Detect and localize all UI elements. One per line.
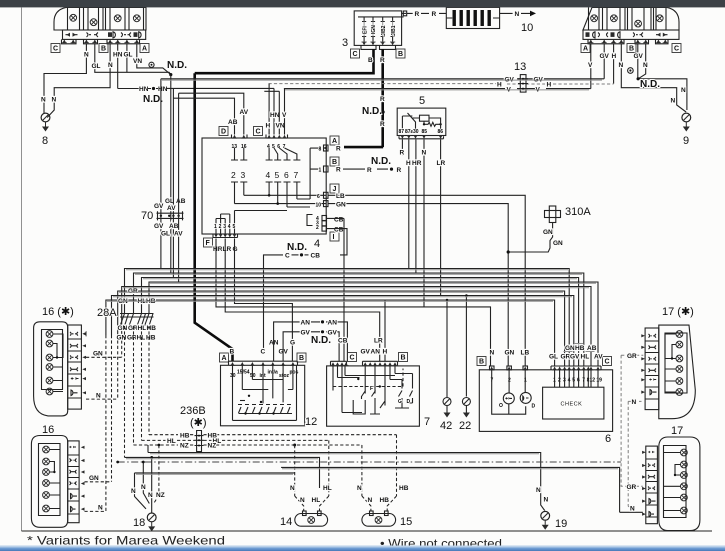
17 connector strip [646,446,658,524]
wire N2 right headlamp to ND dot [638,44,687,110]
svg-text:AB: AB [228,119,238,126]
AN junction N.D. [274,320,348,362]
fusebox output pin right [402,11,407,16]
svg-text:B: B [368,57,373,64]
connector label B (comp 7) [399,353,408,362]
wire HB to 15 [387,435,396,511]
svg-text:C: C [285,253,290,260]
svg-text:HL: HL [167,438,176,445]
svg-text:G: G [398,399,402,405]
svg-text:B: B [629,46,634,53]
svg-text:CB: CB [311,253,321,260]
comp6 internals: gauge 1 [499,393,514,409]
wire H long run (dashed) [269,83,614,85]
svg-text:8: 8 [319,147,322,153]
svg-text:N: N [632,399,637,406]
svg-text:N: N [300,497,305,504]
wire GL2 from left headlamp [126,44,128,73]
svg-text:6: 6 [284,170,289,180]
not-connected symbol [149,62,154,67]
svg-text:GV: GV [361,349,371,356]
wire G riser from F to comp12 [235,239,293,362]
control unit 4 (box) [202,138,326,234]
svg-text:HN: HN [158,86,168,93]
wire AB riser through 70 [172,89,174,278]
wire LR riser from F [225,239,380,362]
svg-text:LR: LR [437,160,446,167]
comp6 internals wiring [492,370,526,414]
svg-text:3: 3 [241,170,246,180]
headlamp right icon strip [583,30,679,39]
svg-text:H: H [383,349,388,356]
svg-text:19: 19 [596,378,602,384]
wire V long run [284,88,591,90]
17 lamps [664,449,688,514]
svg-text:J/B1: J/B1 [391,25,397,36]
wire R thick from fusebox down [381,49,384,147]
N dashed riser right [628,401,633,512]
connector label A (comp 12) [220,353,229,362]
svg-text:C: C [53,46,58,53]
headlamp left lamp 1 [70,14,77,21]
connector label C (right headlamp) [672,44,681,53]
unit4 contact 3 [240,148,247,190]
svg-text:2: 2 [231,170,236,180]
wire C-CB N.D. junction below comp4 [264,242,321,351]
comp7 internals [333,366,413,415]
svg-text:NZ: NZ [208,443,217,450]
ground 42 riser [446,300,448,397]
svg-text:15/54: 15/54 [237,370,250,376]
wire R-R fusebox to link 10 [407,12,447,14]
connector label B (fusebox 3) [396,49,405,58]
svg-text:CB: CB [334,217,344,224]
svg-text:AV: AV [167,205,176,212]
relay 5 [397,108,446,139]
svg-text:6: 6 [605,433,611,445]
svg-text:N: N [148,492,153,499]
comp7 top pins left group [330,361,348,365]
svg-text:GN: GN [336,202,346,209]
svg-text:1: 1 [214,224,217,230]
svg-text:H: H [497,82,502,89]
connector label A (left headlamp) [140,44,149,53]
svg-text:N.D.: N.D. [167,60,187,71]
unit4 pin A8 R [319,145,342,153]
connector label A (unit 4) [330,136,339,145]
svg-text:C: C [261,349,266,356]
svg-text:GN: GN [553,240,563,247]
svg-text:NZ: NZ [156,492,165,499]
svg-text:10: 10 [316,203,322,209]
wire AV branch to comp4 pin 16 [179,93,244,134]
comp6 internals: gauge 2 [520,392,535,409]
wire AV riser through 70 [178,93,180,282]
connector 70 [157,211,184,220]
svg-text:N: N [52,97,57,104]
svg-text:CHECK: CHECK [561,402,583,408]
svg-text:N: N [84,52,89,59]
unit4 pin J10 GN wire [316,201,509,366]
svg-text:16: 16 [42,424,54,436]
svg-text:18: 18 [133,517,145,529]
comp12 internals [233,365,297,420]
wire N to 15 [362,445,371,511]
svg-text:J/B2: J/B2 [381,25,387,36]
connector label C (fusebox 3) [351,49,360,58]
svg-text:N.D.: N.D. [362,106,382,117]
long run solid y452 to ground 19 [148,445,545,511]
wire H from right headlamp [613,44,615,84]
svg-text:GV: GV [600,53,610,60]
ground 8 [41,113,50,131]
svg-text:HL: HL [312,497,321,504]
comp6 pin N [489,350,494,384]
ground 19 [541,511,550,529]
wire GV from right headlamp [603,44,605,79]
16 pins right [81,446,85,511]
comp7 top pins right group [363,361,398,365]
node N junction right [637,77,640,80]
long run solid y457 [125,457,320,488]
svg-text:12: 12 [305,416,317,428]
ground 22 [462,398,470,418]
comp6 pin labels row1 [549,354,603,361]
node bundle taps [446,294,468,301]
svg-text:GL: GL [161,231,170,238]
wire HN continuation to AB riser [166,88,274,134]
svg-text:HB: HB [180,432,190,439]
svg-text:N: N [536,487,541,494]
relay wire H riser [408,140,410,269]
not-connected symbol right [628,68,634,74]
svg-text:N: N [108,62,113,69]
svg-text:6: 6 [317,194,320,200]
svg-text:4: 4 [266,170,271,180]
headlamp right lamp 2 [611,15,618,22]
svg-text:LB: LB [336,193,345,200]
svg-text:VN: VN [276,123,285,130]
wire labels below 28A row1 [118,325,157,332]
svg-text:236B: 236B [180,405,206,417]
svg-text:AN: AN [371,349,381,356]
headlamp left connector pins [62,39,140,43]
wire bundle line 7 [112,296,574,367]
svg-text:GR: GR [128,288,138,295]
svg-text:AN: AN [301,320,311,327]
svg-text:N: N [96,392,101,399]
ignition switch 12 (box) [221,365,305,426]
connector label C (comp 7) [348,353,357,362]
connector label A (right headlamp) [581,44,590,53]
svg-text:GV: GV [154,203,164,210]
svg-text:IGN: IGN [371,25,377,34]
bottom blue bar [0,546,725,551]
svg-text:N: N [544,497,549,504]
comp6 CHECK box [543,387,604,419]
svg-text:2: 2 [219,224,222,230]
svg-text:N: N [368,497,373,504]
svg-text:310A: 310A [565,206,591,218]
headlamp right lamp 1 [591,15,598,22]
wire VN from left headlamp to N.D. dot [137,44,171,75]
svg-text:C: C [674,46,679,53]
svg-text:HL: HL [137,335,146,342]
svg-text:N.D.: N.D. [311,335,331,346]
node GN join [507,250,510,253]
connector 28A [120,314,154,327]
connector label C (left headlamp) [51,44,60,53]
svg-text:GV: GV [154,223,164,230]
svg-text:VN: VN [133,58,142,65]
svg-text:87: 87 [399,129,405,135]
wire N dashed to 16* [86,398,118,400]
svg-text:CB: CB [338,338,348,345]
switch unit 7 (box) [327,366,420,426]
svg-text:GN: GN [565,345,575,352]
svg-text:HB: HB [399,485,409,492]
connector label C (unit 4) [254,127,263,136]
wire V into comp4 [284,89,286,135]
svg-text:B: B [479,359,484,366]
unit4 pin J6 LB wire [317,192,525,366]
svg-text:N: N [290,485,295,492]
16* pins right [82,332,86,394]
svg-text:R: R [415,11,420,18]
svg-text:HR: HR [213,246,223,253]
wire CB1 to comp7 [327,218,348,361]
svg-text:B: B [299,355,304,362]
svg-text:H: H [406,160,411,167]
headlamp left lamp 3 [114,15,121,22]
svg-text:N: N [671,98,676,105]
wire N from left headlamp B to ground 8 [44,44,86,98]
fusible link 10 [446,7,499,28]
connector 13 [518,75,528,93]
unit4 internal wiring [214,148,326,234]
headlamp left icon strip [63,30,146,39]
relay wire HR riser [415,140,417,274]
svg-text:B: B [101,46,106,53]
svg-text:N: N [131,488,136,495]
connector label C (comp 6) [603,357,612,366]
node N tap on NZ row [293,444,296,447]
svg-text:N.D.: N.D. [287,242,307,253]
svg-text:GN: GN [505,350,515,357]
16 connector strip [68,441,79,523]
unit4 contact 7 [285,148,301,190]
svg-text:R: R [367,167,372,174]
wire GL from left headlamp [95,44,171,75]
svg-text:N: N [41,97,46,104]
svg-text:LB: LB [521,350,530,357]
wire scan echoes [107,80,618,474]
ground 9 [682,113,691,131]
svg-text:4: 4 [228,224,231,230]
ground 22 riser [465,296,467,397]
instrument panel 6 (box) [479,370,612,432]
16 lamps [43,446,60,512]
wire B thick from fusebox to left riser [195,49,374,73]
svg-text:HN: HN [113,52,123,59]
wire V from right headlamp [590,44,592,89]
svg-text:HB: HB [146,335,156,342]
svg-text:N: N [141,484,146,491]
unit4 contact 2 [231,148,238,190]
svg-text:HL: HL [581,354,590,361]
HN junction with N.D. [118,86,168,93]
relay wire LR riser [440,140,442,296]
wire N with arrow from link 10 [500,11,536,18]
svg-text:16 (✱): 16 (✱) [42,306,74,318]
svg-text:7: 7 [283,144,286,150]
svg-text:12: 12 [590,378,596,384]
svg-text:8: 8 [42,135,48,147]
svg-text:GN: GN [93,351,103,358]
17* lamps [665,331,683,396]
svg-text:5: 5 [419,95,425,107]
node R N.D. [390,168,393,171]
comp6 pin GN [505,350,515,384]
svg-text:B: B [332,159,337,166]
ground 18 [147,513,156,531]
wire VN into comp4 [264,91,279,134]
unit4 contact 4 [266,148,273,190]
svg-text:5: 5 [275,170,280,180]
svg-text:N: N [490,350,495,357]
svg-text:HB: HB [147,325,157,332]
svg-text:I: I [333,234,335,241]
svg-text:R: R [380,121,385,128]
svg-text:N: N [643,62,648,69]
svg-text:4: 4 [314,238,320,250]
unit4 contact 5 [274,148,281,190]
GR dashed riser right [621,355,643,486]
svg-text:R: R [397,167,402,174]
svg-text:HL: HL [323,485,332,492]
svg-text:GN: GN [117,335,127,342]
wire HL through 236B [142,439,329,441]
ground 18 feeds [135,444,161,514]
svg-text:V: V [588,62,593,69]
svg-text:GL: GL [165,198,174,205]
relay wire R stub [401,140,403,156]
28A drop wires dashed [125,326,150,457]
svg-text:N.D.: N.D. [371,156,391,167]
svg-text:N: N [515,11,520,18]
svg-text:HN: HN [139,86,149,93]
svg-text:3: 3 [223,224,226,230]
svg-text:28A: 28A [97,307,117,319]
svg-text:HB: HB [575,345,585,352]
svg-text:22: 22 [459,420,471,432]
svg-text:D: D [221,129,226,136]
svg-text:R: R [432,11,437,18]
connector C pins [266,135,288,151]
node dashdot taps [116,461,119,464]
wire GV long run to connector 13 [161,78,604,80]
svg-text:O: O [499,403,503,409]
GV junction N.D. [283,330,339,362]
tail lamp 16 body (lower) [31,436,67,528]
svg-text:N: N [630,506,635,513]
connector label B (right headlamp) [627,44,636,53]
svg-text:7: 7 [424,416,430,428]
svg-text:N: N [681,87,686,94]
frame left border [21,7,23,531]
svg-text:AV: AV [594,354,603,361]
svg-text:HB: HB [380,497,390,504]
connector D pins [232,135,248,151]
16* connector strip [68,325,86,409]
svg-text:7: 7 [294,170,299,180]
svg-text:HN: HN [270,112,280,119]
wire GL riser through 70 [170,75,172,273]
svg-text:NZ: NZ [180,443,189,450]
svg-text:* Variants for Marea Weekend: * Variants for Marea Weekend [27,534,225,548]
svg-text:GV: GV [634,53,644,60]
wire bundle line 8 [106,300,555,366]
connector label B (left headlamp) [99,44,108,53]
17 pins left [642,451,646,516]
headlamp right lamp 4 [656,15,663,22]
svg-text:10: 10 [521,22,533,34]
svg-text:GL: GL [124,52,133,59]
svg-text:GN: GN [89,475,99,482]
svg-text:C: C [256,129,261,136]
wire GR dashed comp7-C to 17* [621,354,643,356]
svg-text:R: R [380,96,385,103]
svg-text:EFI: EFI [362,26,368,34]
wire N dashed to 17* [628,400,641,402]
svg-text:N: N [619,62,624,69]
svg-text:H: H [547,82,552,89]
wire GN dashed to 16* [86,356,122,358]
svg-text:R: R [336,146,341,153]
svg-text:H: H [266,123,271,130]
svg-text:A: A [583,46,588,53]
svg-text:GL: GL [92,63,101,70]
svg-text:19: 19 [555,518,567,530]
17* connector strip [645,328,659,410]
svg-text:(✱): (✱) [190,417,207,429]
svg-text:70: 70 [141,210,153,222]
connector 236B [195,431,204,452]
svg-text:5: 5 [233,224,236,230]
svg-text:N.D.: N.D. [640,79,660,90]
svg-text:GN: GN [543,229,553,236]
wire N dashed to 16 [85,510,106,512]
svg-text:14: 14 [280,516,292,528]
svg-text:A: A [142,46,147,53]
wire N solid into 17 [620,511,643,513]
top dark header bar [0,0,725,7]
connector label D (unit 4) [219,127,228,136]
svg-text:CB: CB [334,227,344,234]
svg-text:AV: AV [174,231,183,238]
license lamp 14 [295,511,328,526]
comp6 pin group C [551,366,602,384]
svg-text:D: D [407,399,411,405]
headlamp left lamp 2 [90,19,97,26]
wire HL to 14 (dashed drop) [320,440,329,511]
connector label I (unit 4) [330,232,339,241]
ground 8 junction wires [44,98,54,118]
node on R riser [382,110,385,113]
headlamp cluster right (body) [583,7,679,30]
svg-text:C: C [353,51,358,58]
svg-text:F: F [370,386,373,392]
